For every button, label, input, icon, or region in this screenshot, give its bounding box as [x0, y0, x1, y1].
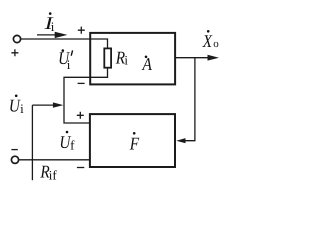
wire bottom from terminal to block F	[17, 159, 90, 161]
wire feedback from output node down to block F input	[185, 58, 195, 141]
arrowhead feedback pointing left into block F	[176, 138, 185, 143]
minus sign at bottom terminal	[11, 149, 17, 151]
feedback block U2 F	[90, 114, 175, 167]
svg-text:X: X	[202, 31, 213, 51]
wire input top from terminal to R_i top	[20, 39, 108, 48]
svg-text:i: i	[124, 53, 128, 68]
wire R_if port marker vertical	[31, 105, 33, 180]
svg-text:if: if	[49, 167, 58, 182]
resistor R1 R_i	[104, 48, 111, 67]
wire R_i bottom loop exiting block A and down to U_f node	[64, 68, 108, 123]
svg-text:F: F	[129, 134, 140, 154]
plus sign at top terminal	[11, 49, 18, 56]
svg-text:f: f	[70, 137, 75, 152]
plus sign U_f top	[77, 112, 84, 119]
minus sign U_f bottom	[77, 167, 84, 169]
svg-text:i: i	[51, 19, 55, 34]
svg-text:i: i	[67, 57, 71, 72]
terminal input top circle	[13, 35, 20, 42]
plus sign U'_i at block A input top	[78, 27, 85, 34]
arrow I_i current annotation	[37, 34, 56, 36]
minus sign U'_i at block A input bottom	[78, 82, 85, 84]
amplifier block U1 A	[90, 33, 175, 85]
svg-text:i: i	[20, 101, 24, 116]
wire output with arrow X_o	[176, 57, 208, 59]
terminal input bottom circle	[11, 156, 18, 163]
svg-text:o: o	[213, 38, 219, 50]
arrow U_i input pointing right into node	[32, 104, 54, 106]
svg-text:U: U	[9, 95, 21, 115]
